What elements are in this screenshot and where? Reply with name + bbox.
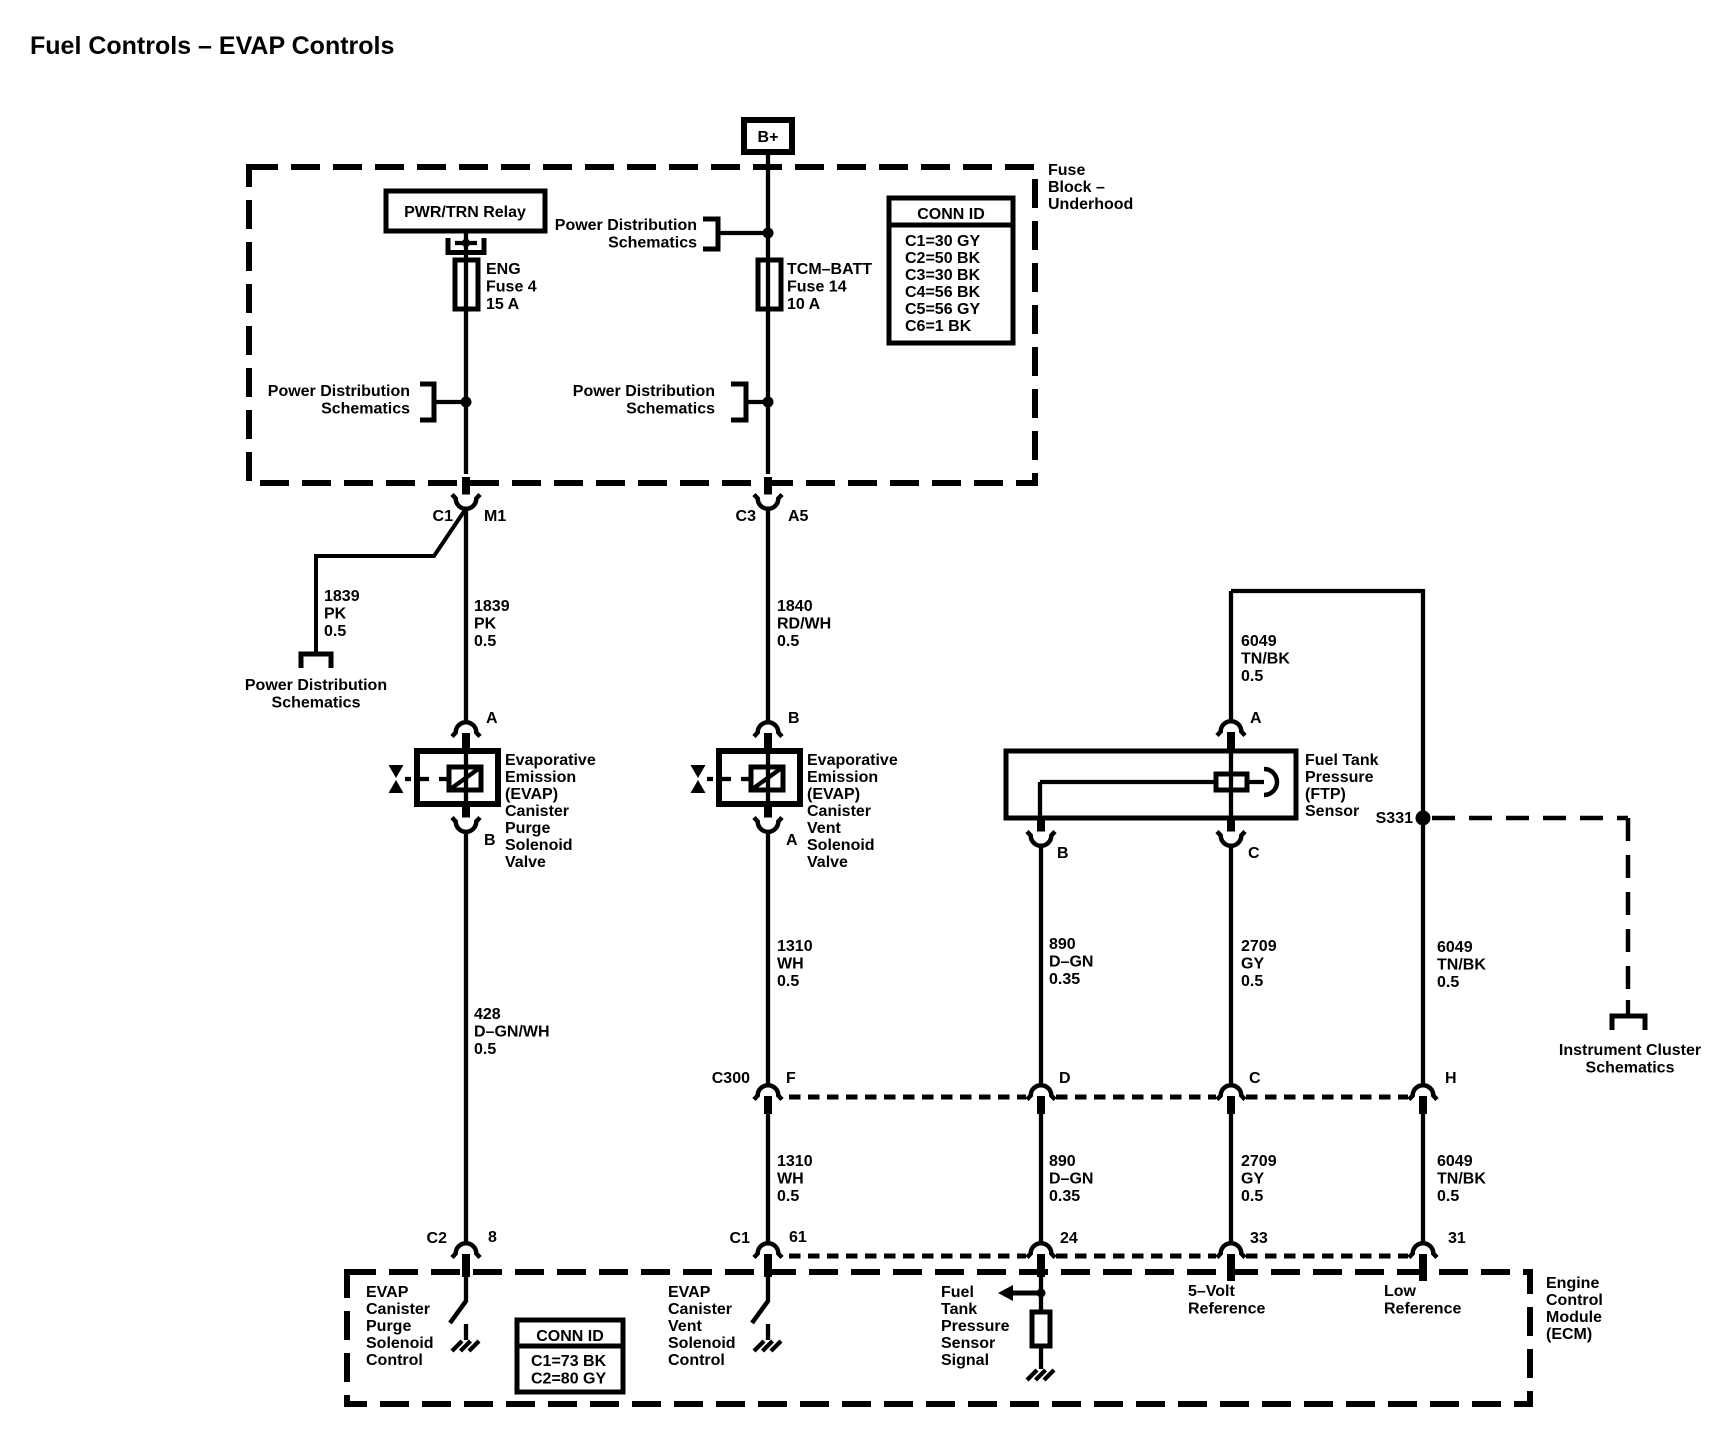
svg-text:2709: 2709 xyxy=(1241,938,1277,955)
connector pin A (EVAP purge solenoid valve top) xyxy=(452,722,480,736)
svg-text:C1=30 GY: C1=30 GY xyxy=(905,233,980,250)
svg-text:C6=1 BK: C6=1 BK xyxy=(905,318,972,335)
wire 24 into ECM xyxy=(1039,1277,1043,1312)
bracket instrument cluster xyxy=(1612,1016,1645,1030)
svg-text:1310: 1310 xyxy=(777,938,813,955)
svg-text:0.5: 0.5 xyxy=(474,1041,496,1058)
svg-text:Purge: Purge xyxy=(366,1318,411,1335)
svg-text:C1=73 BK: C1=73 BK xyxy=(531,1353,607,1370)
engine control module dashed box xyxy=(347,1272,1530,1404)
relay output terminal symbol xyxy=(446,238,451,255)
connector pin 33 xyxy=(1217,1243,1245,1257)
svg-text:CONN ID: CONN ID xyxy=(536,1328,604,1345)
svg-text:TCM–BATT: TCM–BATT xyxy=(787,261,872,278)
connector C300 pin C xyxy=(1217,1085,1245,1099)
svg-text:Schematics: Schematics xyxy=(321,401,410,418)
svg-text:Sensor: Sensor xyxy=(941,1335,995,1352)
svg-text:Fuel: Fuel xyxy=(941,1284,974,1301)
svg-text:C4=56 BK: C4=56 BK xyxy=(905,284,981,301)
svg-text:1839: 1839 xyxy=(324,588,360,605)
wire switch to ground mid xyxy=(766,1324,770,1340)
svg-text:428: 428 xyxy=(474,1006,501,1023)
svg-text:0.5: 0.5 xyxy=(1437,1188,1459,1205)
svg-text:A: A xyxy=(1250,710,1262,727)
svg-text:Control: Control xyxy=(668,1352,725,1369)
svg-text:24: 24 xyxy=(1060,1230,1078,1247)
svg-text:Power Distribution: Power Distribution xyxy=(573,383,715,400)
svg-text:0.5: 0.5 xyxy=(777,1188,799,1205)
svg-text:Vent: Vent xyxy=(807,820,841,837)
svg-text:Solenoid: Solenoid xyxy=(505,837,573,854)
connector C300 pin H xyxy=(1409,1085,1437,1099)
svg-text:Control: Control xyxy=(1546,1292,1603,1309)
svg-text:Control: Control xyxy=(366,1352,423,1369)
svg-text:WH: WH xyxy=(777,956,804,973)
svg-text:Schematics: Schematics xyxy=(626,401,715,418)
connector C3 pin A5 xyxy=(754,495,782,509)
svg-text:31: 31 xyxy=(1448,1230,1466,1247)
svg-text:Emission: Emission xyxy=(807,769,878,786)
node S331 splice xyxy=(1416,811,1431,826)
svg-text:Fuse: Fuse xyxy=(1048,162,1085,179)
svg-text:EVAP: EVAP xyxy=(366,1284,409,1301)
wire M1 down xyxy=(464,508,468,724)
svg-text:GY: GY xyxy=(1241,956,1264,973)
wire C to 33 xyxy=(1229,1114,1233,1244)
arrow fuel tank pressure signal xyxy=(1013,1291,1043,1296)
svg-text:(FTP): (FTP) xyxy=(1305,786,1346,803)
wire branch diagonal to PD xyxy=(316,510,465,652)
svg-text:A: A xyxy=(786,832,798,849)
svg-text:B+: B+ xyxy=(758,129,779,146)
bracket upper power distribution xyxy=(703,219,718,249)
wire purge B down to ECM xyxy=(464,830,468,1244)
connector C1 pin M1 xyxy=(452,495,480,509)
junction dot upper right PD xyxy=(763,228,774,239)
svg-text:C2=50 BK: C2=50 BK xyxy=(905,250,981,267)
switch EVAP vent driver xyxy=(752,1301,768,1323)
junction dot left PD xyxy=(461,397,472,408)
svg-text:890: 890 xyxy=(1049,936,1076,953)
svg-text:8: 8 xyxy=(488,1229,497,1246)
svg-text:Vent: Vent xyxy=(668,1318,702,1335)
CONN ID table ECM xyxy=(517,1320,623,1392)
ground EVAP vent driver xyxy=(754,1341,764,1351)
node B+ battery feed box xyxy=(744,120,792,152)
svg-text:TN/BK: TN/BK xyxy=(1437,957,1486,974)
svg-text:Fuel Tank: Fuel Tank xyxy=(1305,752,1379,769)
svg-text:6049: 6049 xyxy=(1437,1153,1473,1170)
svg-text:33: 33 xyxy=(1250,1230,1268,1247)
fuse block underhood dashed box xyxy=(249,167,1035,483)
svg-text:TN/BK: TN/BK xyxy=(1241,651,1290,668)
svg-text:0.5: 0.5 xyxy=(1437,974,1459,991)
svg-text:PK: PK xyxy=(474,616,497,633)
svg-text:Purge: Purge xyxy=(505,820,550,837)
svg-text:6049: 6049 xyxy=(1437,939,1473,956)
wire D to 24 xyxy=(1039,1114,1043,1244)
svg-text:CONN ID: CONN ID xyxy=(917,206,985,223)
connector pin B FTP sensor xyxy=(1037,818,1045,835)
svg-text:C: C xyxy=(1249,1070,1261,1087)
svg-text:C1: C1 xyxy=(433,508,454,525)
FTP internal wire A to resistor xyxy=(1229,751,1233,818)
svg-text:C300: C300 xyxy=(712,1070,750,1087)
connector pin 31 xyxy=(1409,1243,1437,1257)
svg-text:0.5: 0.5 xyxy=(1241,668,1263,685)
svg-text:Pressure: Pressure xyxy=(941,1318,1010,1335)
EVAP canister vent solenoid valve body xyxy=(719,751,800,804)
svg-text:Block –: Block – xyxy=(1048,179,1105,196)
svg-text:Evaporative: Evaporative xyxy=(505,752,596,769)
svg-text:Power Distribution: Power Distribution xyxy=(245,677,387,694)
svg-text:Power Distribution: Power Distribution xyxy=(268,383,410,400)
svg-text:Solenoid: Solenoid xyxy=(807,837,875,854)
svg-text:D–GN: D–GN xyxy=(1049,954,1093,971)
svg-text:D–GN: D–GN xyxy=(1049,1171,1093,1188)
svg-text:C3=30 BK: C3=30 BK xyxy=(905,267,981,284)
connector pin C FTP sensor xyxy=(1227,818,1235,835)
svg-text:Solenoid: Solenoid xyxy=(668,1335,736,1352)
svg-text:M1: M1 xyxy=(484,508,506,525)
svg-text:Schematics: Schematics xyxy=(1586,1060,1675,1077)
svg-text:Canister: Canister xyxy=(366,1301,430,1318)
svg-text:0.5: 0.5 xyxy=(1241,973,1263,990)
ground FTP signal xyxy=(1027,1370,1037,1380)
svg-text:Canister: Canister xyxy=(807,803,871,820)
svg-text:61: 61 xyxy=(789,1229,807,1246)
svg-text:0.35: 0.35 xyxy=(1049,971,1080,988)
bracket lower right power distribution xyxy=(731,384,746,420)
svg-text:(ECM): (ECM) xyxy=(1546,1326,1592,1343)
wire fuse14 to C3 xyxy=(766,309,770,474)
svg-text:0.5: 0.5 xyxy=(474,633,496,650)
svg-text:C3: C3 xyxy=(736,508,757,525)
wire to left PD bracket xyxy=(434,400,466,404)
svg-text:C: C xyxy=(1248,845,1260,862)
CONN ID table fuse block xyxy=(889,198,1013,343)
svg-text:S331: S331 xyxy=(1376,810,1413,827)
svg-text:C5=56 GY: C5=56 GY xyxy=(905,301,980,318)
svg-text:Reference: Reference xyxy=(1384,1301,1461,1318)
svg-text:Fuse 14: Fuse 14 xyxy=(787,279,847,296)
FTP internal wire to B xyxy=(1040,780,1216,784)
ground EVAP purge driver xyxy=(452,1341,462,1351)
svg-text:GY: GY xyxy=(1241,1171,1264,1188)
EVAP canister purge solenoid valve body xyxy=(417,751,498,804)
svg-text:Schematics: Schematics xyxy=(272,695,361,712)
svg-text:B: B xyxy=(484,832,496,849)
svg-text:(EVAP): (EVAP) xyxy=(807,786,860,803)
svg-text:WH: WH xyxy=(777,1171,804,1188)
wire switch to ground left xyxy=(464,1324,468,1340)
svg-text:Pressure: Pressure xyxy=(1305,769,1374,786)
wire F to 61 xyxy=(766,1114,770,1244)
svg-text:Underhood: Underhood xyxy=(1048,196,1133,213)
svg-text:0.5: 0.5 xyxy=(777,633,799,650)
wire B+ to fuse14 xyxy=(766,155,770,262)
connector C2 pin 8 xyxy=(452,1243,480,1257)
svg-text:D: D xyxy=(1059,1070,1071,1087)
svg-text:Canister: Canister xyxy=(505,803,569,820)
wire FTP A vertical xyxy=(1229,591,1233,722)
dashed connector line C300 xyxy=(789,1095,1026,1100)
svg-text:1839: 1839 xyxy=(474,598,510,615)
FTP internal resistive element xyxy=(1216,774,1247,790)
svg-text:15 A: 15 A xyxy=(486,296,520,313)
svg-text:0.5: 0.5 xyxy=(777,973,799,990)
svg-text:PWR/TRN Relay: PWR/TRN Relay xyxy=(404,204,526,221)
svg-text:A5: A5 xyxy=(788,508,809,525)
valve pneumatic port symbol xyxy=(389,765,404,778)
connector pin 24 xyxy=(1027,1243,1055,1257)
svg-text:Low: Low xyxy=(1384,1283,1417,1300)
svg-text:D–GN/WH: D–GN/WH xyxy=(474,1024,550,1041)
svg-text:Schematics: Schematics xyxy=(608,235,697,252)
svg-text:10 A: 10 A xyxy=(787,296,821,313)
svg-text:0.5: 0.5 xyxy=(1241,1188,1263,1205)
svg-text:C2=80 GY: C2=80 GY xyxy=(531,1371,606,1388)
svg-text:F: F xyxy=(786,1070,796,1087)
bracket branch power distribution xyxy=(301,654,331,668)
wire fuse4 to C1 xyxy=(464,309,468,474)
svg-text:ENG: ENG xyxy=(486,261,521,278)
connector C300 pin D xyxy=(1027,1085,1055,1099)
svg-text:Fuel Controls – EVAP Controls: Fuel Controls – EVAP Controls xyxy=(30,32,394,60)
fuse ENG Fuse 4 15A xyxy=(455,260,478,309)
wire relay to fuse xyxy=(464,231,468,262)
wire vent A down to C300 xyxy=(766,830,770,1086)
svg-text:A: A xyxy=(486,710,498,727)
svg-text:1840: 1840 xyxy=(777,598,813,615)
bracket left power distribution xyxy=(420,384,434,420)
wire H to 31 xyxy=(1421,1114,1425,1244)
wire A5 down xyxy=(766,508,770,724)
svg-text:Engine: Engine xyxy=(1546,1275,1599,1292)
svg-text:EVAP: EVAP xyxy=(668,1284,711,1301)
wire upper PD bracket to wire xyxy=(718,231,768,235)
svg-text:Emission: Emission xyxy=(505,769,576,786)
svg-text:RD/WH: RD/WH xyxy=(777,616,831,633)
wire FTP C down xyxy=(1229,845,1233,1086)
relay PWR/TRN box xyxy=(386,191,545,231)
svg-text:TN/BK: TN/BK xyxy=(1437,1171,1486,1188)
svg-text:Valve: Valve xyxy=(807,854,848,871)
wire 8 into ECM xyxy=(464,1277,468,1302)
svg-text:Instrument Cluster: Instrument Cluster xyxy=(1559,1042,1701,1059)
svg-text:5–Volt: 5–Volt xyxy=(1188,1283,1236,1300)
wire FTP B down xyxy=(1039,845,1043,1086)
svg-text:0.5: 0.5 xyxy=(324,623,346,640)
svg-text:H: H xyxy=(1445,1070,1457,1087)
dashed connector line ECM xyxy=(789,1254,1026,1259)
wire resistor to ground xyxy=(1039,1346,1043,1369)
svg-text:Evaporative: Evaporative xyxy=(807,752,898,769)
svg-text:Canister: Canister xyxy=(668,1301,732,1318)
svg-text:Solenoid: Solenoid xyxy=(366,1335,434,1352)
wire dashed to instrument cluster xyxy=(1432,816,1628,821)
svg-text:6049: 6049 xyxy=(1241,633,1277,650)
connector pin A (EVAP vent solenoid valve bottom) xyxy=(764,804,772,821)
svg-text:Module: Module xyxy=(1546,1309,1602,1326)
svg-text:B: B xyxy=(1057,845,1069,862)
svg-text:(EVAP): (EVAP) xyxy=(505,786,558,803)
svg-text:Valve: Valve xyxy=(505,854,546,871)
fuel tank pressure sensor box xyxy=(1006,751,1296,818)
connector pin B (EVAP purge solenoid valve bottom) xyxy=(462,804,470,821)
svg-text:C1: C1 xyxy=(730,1230,751,1247)
svg-text:Fuse 4: Fuse 4 xyxy=(486,279,537,296)
resistor FTP signal pullup xyxy=(1032,1312,1050,1346)
svg-text:Sensor: Sensor xyxy=(1305,803,1359,820)
connector pin B (EVAP vent solenoid valve top) xyxy=(754,722,782,736)
svg-text:Power Distribution: Power Distribution xyxy=(555,217,697,234)
wire 6049 right vertical xyxy=(1421,589,1425,1086)
connector pin A FTP sensor xyxy=(1217,721,1245,735)
svg-text:890: 890 xyxy=(1049,1153,1076,1170)
connector C1 pin 61 xyxy=(754,1243,782,1257)
svg-text:1310: 1310 xyxy=(777,1153,813,1170)
switch EVAP purge driver xyxy=(450,1301,466,1323)
connector C300 pin F xyxy=(754,1085,782,1099)
valve pneumatic port symbol xyxy=(691,765,706,778)
wire lower PD bracket to wire xyxy=(746,400,768,404)
svg-text:Signal: Signal xyxy=(941,1352,989,1369)
fuse TCM-BATT Fuse 14 10A xyxy=(758,260,781,309)
svg-text:Tank: Tank xyxy=(941,1301,977,1318)
wire 61 into ECM xyxy=(766,1277,770,1302)
svg-text:PK: PK xyxy=(324,606,347,623)
svg-text:B: B xyxy=(788,710,800,727)
svg-text:Reference: Reference xyxy=(1188,1301,1265,1318)
FTP internal wiper contact xyxy=(1247,780,1264,784)
svg-text:2709: 2709 xyxy=(1241,1153,1277,1170)
wire 6049 top horizontal xyxy=(1231,589,1423,593)
junction dot lower right PD xyxy=(763,397,774,408)
svg-text:0.35: 0.35 xyxy=(1049,1188,1080,1205)
svg-text:C2: C2 xyxy=(427,1230,448,1247)
